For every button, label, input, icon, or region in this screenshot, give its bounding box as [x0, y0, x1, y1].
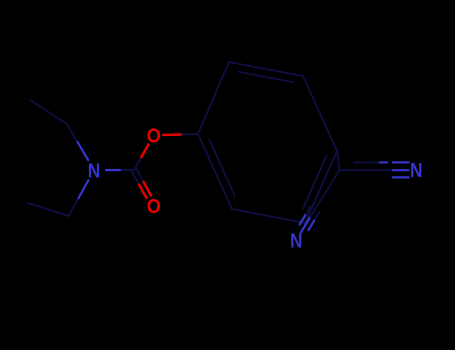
svg-text:N: N — [290, 230, 303, 252]
svg-text:N: N — [410, 160, 423, 182]
svg-text:N: N — [88, 160, 101, 182]
svg-text:O: O — [147, 196, 161, 218]
svg-text:O: O — [147, 125, 161, 147]
